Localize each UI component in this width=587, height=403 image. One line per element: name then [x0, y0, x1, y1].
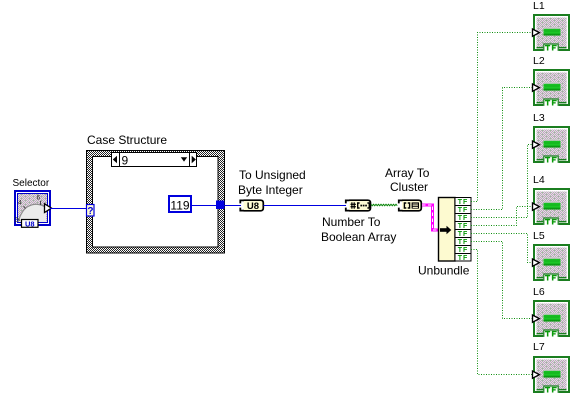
svg-text:L3: L3 [533, 112, 545, 124]
svg-text:TF: TF [458, 239, 469, 246]
svg-text:Number To: Number To [322, 215, 381, 229]
svg-text:TF: TF [458, 255, 469, 262]
svg-text:L5: L5 [533, 230, 545, 242]
svg-text:TF: TF [458, 231, 469, 238]
svg-text:Cluster: Cluster [390, 180, 428, 194]
wire: boolean array (green zigzag) [371, 204, 397, 205]
svg-text:L1: L1 [533, 0, 545, 12]
svg-text:To Unsigned: To Unsigned [239, 168, 306, 182]
wire: 119 to output tunnel [192, 205, 217, 207]
constant 119 [169, 196, 191, 213]
indicator L1 [533, 15, 570, 51]
wire: TF2 to L2 (green dotted) [471, 88, 533, 210]
svg-text:119: 119 [170, 199, 189, 213]
wire: tunnel to U8 conversion node [224, 205, 241, 207]
svg-text:Unbundle: Unbundle [418, 264, 470, 278]
svg-text:L4: L4 [533, 174, 545, 186]
svg-text:Boolean Array: Boolean Array [321, 230, 396, 244]
wire: TF5 to L5 (green dotted) [471, 234, 533, 263]
svg-text:9: 9 [122, 153, 129, 167]
control: Selector (U8 knob) [14, 191, 51, 228]
svg-text:TF: TF [458, 223, 469, 230]
node: Number To Boolean Array [345, 200, 371, 212]
svg-text:L2: L2 [533, 55, 545, 67]
svg-text:L7: L7 [533, 341, 545, 353]
svg-text:TF: TF [458, 215, 469, 222]
node: Array To Cluster [398, 200, 423, 212]
indicator L5 [533, 245, 570, 281]
svg-text:U8: U8 [25, 219, 35, 228]
indicator L6 [533, 301, 570, 337]
wire: TF4 to L4 (green dotted) [471, 207, 533, 226]
indicator L4 [533, 189, 570, 225]
wire: cluster (magenta) Array To Cluster to Unbundle [422, 205, 440, 230]
wire: TF1 to L1 (green dotted) [471, 33, 533, 202]
svg-text:?: ? [87, 206, 93, 217]
svg-text:TF: TF [458, 207, 469, 214]
svg-text:TF: TF [458, 247, 469, 254]
svg-text:L6: L6 [533, 286, 545, 298]
svg-text:2: 2 [14, 217, 18, 224]
wire: U8 conversion to Number To Boolean Array [264, 205, 347, 207]
wire: Selector to case selector terminal [50, 208, 87, 210]
case structure border [86, 150, 225, 254]
wire: TF3 to L3 (green dotted) [471, 145, 533, 218]
svg-text:U8: U8 [247, 201, 259, 212]
case selector label "9" [112, 153, 197, 168]
svg-text:TF: TF [458, 199, 469, 206]
svg-text:Selector: Selector [13, 178, 50, 189]
node: To Unsigned Byte Integer (U8) [239, 200, 263, 213]
output tunnel (blue square) [216, 201, 225, 210]
indicator L3 [533, 127, 570, 163]
case selector terminal ? [87, 205, 95, 218]
indicator L7 [533, 357, 570, 393]
node: Unbundle [439, 198, 472, 263]
svg-text:6: 6 [37, 195, 41, 202]
svg-text:Array To: Array To [385, 166, 430, 180]
wire: TF6 to L6 (green dotted) [471, 242, 533, 319]
svg-text:Byte Integer: Byte Integer [238, 183, 303, 197]
wire: TF7 to L7 (green dotted) [471, 250, 533, 375]
indicator L2 [533, 70, 570, 106]
svg-text:Case Structure: Case Structure [87, 133, 167, 147]
svg-text:4: 4 [18, 200, 22, 207]
